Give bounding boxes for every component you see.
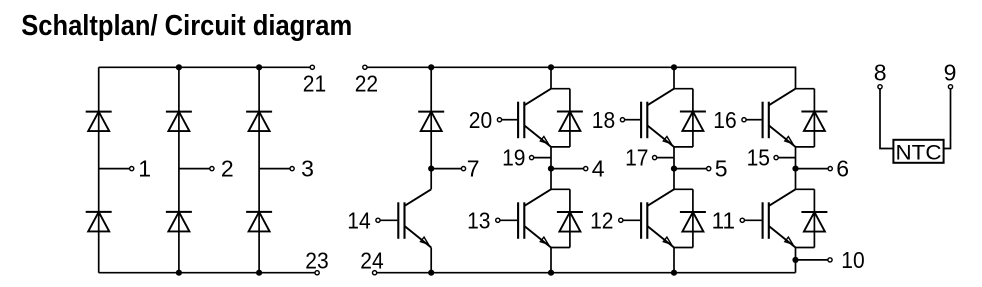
terminal 3 [290,167,294,171]
rectifier diode top leg 1 [86,112,112,132]
terminal 18 (gate) [620,118,624,122]
svg-text:16: 16 [713,107,736,133]
rectifier diode bottom leg 2 [166,212,192,232]
svg-text:3: 3 [301,156,314,182]
junction: top rail / chopper [428,64,434,70]
terminal 9 [948,85,952,89]
junction: top rail / phase 4 [548,64,554,70]
terminal 15 [774,156,778,160]
terminal 11 (gate) [740,218,744,222]
wire: rectifier bottom rail (-) to terminal 23 [99,272,315,274]
wire: terminal 10 stub [796,259,829,261]
freewheel diode (high side, phase 6) [801,111,827,131]
junction: bottom rail / chopper [428,270,434,276]
terminal 10 [828,258,832,262]
IGBT 13 (phase 4 low side) [500,189,551,247]
wire: inverter bottom rail from 24 to phase C [377,272,796,274]
wire: lower collector row phase 4 [551,188,570,190]
wire: AC input stub 2 [179,168,210,170]
wire: lower diode branch phase 4 [569,189,571,247]
terminal 5 [707,167,711,171]
wire: lower emitter row phase 5 [674,247,693,249]
wire: lower collector row phase 5 [674,188,693,190]
svg-text:7: 7 [467,156,480,182]
junction: chopper / terminal 7 stub [428,166,434,172]
wire: top rail drop to phase 5 upper collector [673,67,675,88]
wire: upper collector row phase 4 [551,88,570,90]
terminal 14 (gate) [376,218,380,222]
freewheel diode (low side, phase 4) [557,212,583,232]
terminal 6 [828,167,832,171]
wire: NTC left lead [880,89,893,149]
wire: lower emitter row phase 4 [551,247,570,249]
svg-text:10: 10 [841,247,864,273]
wire: upper diode branch phase 5 [692,89,694,147]
junction: phase 5 output [671,166,677,172]
terminal 1 [130,167,134,171]
svg-text:4: 4 [592,156,605,182]
IGBT 18 (phase 5 high side) [625,89,675,147]
wire: lower diode branch phase 6 [813,189,815,247]
wire: output stub 6 [796,168,829,170]
wire: upper diode branch phase 4 [569,89,571,147]
freewheel diode (low side, phase 6) [801,212,827,232]
wire: rectifier leg 2 vertical [178,67,180,272]
svg-text:12: 12 [590,207,613,233]
terminal 8 [878,85,882,89]
svg-text:Schaltplan/ Circuit diagram: Schaltplan/ Circuit diagram [21,10,352,42]
freewheel diode (low side, phase 5) [680,212,706,232]
wire: phase 6 node vertical [795,147,797,189]
rectifier diode bottom leg 3 [246,212,272,232]
junction: bottom rail / leg 2 [176,270,182,276]
svg-text:21: 21 [303,70,326,96]
rectifier diode top leg 2 [166,112,192,132]
terminal 22 [363,65,367,69]
terminal 2 [210,167,214,171]
junction: bottom rail / leg 3 [256,270,262,276]
junction: top rail / leg 3 [256,64,262,70]
IGBT 11 (phase 6 low side) [744,189,795,247]
svg-text:20: 20 [469,107,492,133]
freewheel diode (high side, phase 4) [557,111,583,131]
svg-text:5: 5 [715,156,728,182]
wire: upper emitter row phase 4 [551,146,570,148]
junction: bottom rail / phase 4 [548,270,554,276]
terminal 19 [530,156,534,160]
svg-text:NTC: NTC [896,142,942,165]
junction: top rail / phase 5 [671,64,677,70]
terminal 4 [584,167,588,171]
wire: aux emitter stub 19 [534,157,551,159]
junction: top rail / leg 2 [176,64,182,70]
wire: rectifier leg 3 vertical [258,67,260,272]
terminal 12 (gate) [619,218,623,222]
wire: upper collector row phase 6 [796,88,815,90]
wire: inverter top rail from 22, corner down to phase C [367,67,795,88]
wire: NTC right lead [944,89,951,149]
terminal 20 (gate) [497,118,501,122]
svg-text:11: 11 [712,207,735,233]
svg-text:22: 22 [355,70,378,96]
svg-text:2: 2 [221,156,234,182]
wire: phase 4 emitter to bottom rail [550,248,552,273]
NTC thermistor box [893,140,943,163]
IGBT 16 (phase 6 high side) [746,89,796,147]
junction: phase C emitter / terminal 10 stub [792,257,798,263]
terminal 21 [310,65,314,69]
junction: phase 6 output [792,166,798,172]
junction: bottom rail / phase 5 [671,270,677,276]
terminal 23 [315,271,319,275]
chopper diode [418,112,444,132]
wire: upper diode branch phase 6 [813,89,815,147]
freewheel diode (high side, phase 5) [680,111,706,131]
rectifier diode top leg 3 [246,112,272,132]
terminal 17 [653,156,657,160]
terminal 24 [373,271,377,275]
rectifier diode bottom leg 1 [86,212,112,232]
wire: chopper emitter to bottom rail [430,248,432,273]
wire: aux emitter stub 17 [657,157,674,159]
wire: phase 6 emitter to bottom rail [795,248,797,273]
svg-text:23: 23 [305,247,328,273]
svg-text:9: 9 [944,60,957,86]
wire: terminal 7 stub [431,168,461,170]
wire: top rail drop to phase 4 upper collector [550,67,552,88]
wire: rectifier leg 1 vertical [98,67,100,272]
svg-text:13: 13 [467,207,490,233]
svg-text:24: 24 [360,247,384,273]
wire: output stub 4 [551,168,584,170]
svg-text:8: 8 [874,60,887,86]
svg-text:15: 15 [747,145,770,171]
terminal 16 (gate) [742,118,746,122]
junction: phase 4 output [548,166,554,172]
wire: output stub 5 [674,168,707,170]
wire: chopper vertical (through diode) down to IGBT collector [430,67,432,189]
svg-text:1: 1 [138,156,151,182]
wire: rectifier top rail (+) to terminal 21 [99,66,311,68]
wire: aux emitter stub 15 [778,157,795,159]
wire: lower diode branch phase 5 [692,189,694,247]
terminal 13 (gate) [496,218,500,222]
wire: phase 5 emitter to bottom rail [673,248,675,273]
svg-text:17: 17 [625,145,648,171]
wire: AC input stub 3 [259,168,290,170]
wire: phase 4 node vertical [550,147,552,189]
svg-text:18: 18 [592,107,615,133]
wire: lower emitter row phase 6 [796,247,815,249]
terminal 7 [461,167,465,171]
IGBT 20 (phase 4 high side) [502,89,552,147]
wire: phase 5 node vertical [673,147,675,189]
svg-text:14: 14 [347,207,371,233]
wire: upper collector row phase 5 [674,88,693,90]
wire: upper emitter row phase 5 [674,146,693,148]
wire: lower collector row phase 6 [796,188,815,190]
svg-text:19: 19 [502,145,525,171]
wire: AC input stub 1 [99,168,130,170]
IGBT 12 (phase 5 low side) [623,189,674,247]
IGBT 14 (brake chopper) [380,189,431,247]
svg-text:6: 6 [836,156,849,182]
wire: upper emitter row phase 6 [796,146,815,148]
